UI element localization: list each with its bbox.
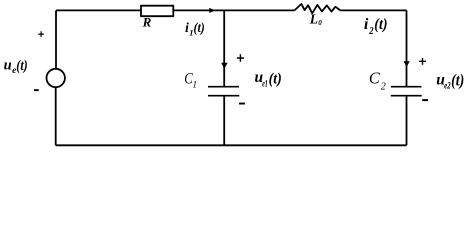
svg-text:(t): (t) bbox=[269, 70, 282, 87]
svg-text:2: 2 bbox=[368, 26, 373, 37]
svg-text:(t): (t) bbox=[374, 16, 387, 33]
svg-text:R: R bbox=[142, 15, 152, 30]
svg-text:(t): (t) bbox=[451, 71, 464, 90]
svg-text:1: 1 bbox=[193, 80, 198, 90]
svg-text:(t): (t) bbox=[16, 58, 27, 74]
svg-text:0: 0 bbox=[318, 19, 322, 27]
svg-text:u: u bbox=[4, 57, 12, 73]
svg-text:i: i bbox=[364, 16, 369, 33]
svg-text:e2: e2 bbox=[444, 82, 451, 92]
svg-text:L: L bbox=[309, 12, 318, 27]
svg-text:e1: e1 bbox=[262, 79, 268, 89]
svg-text:C: C bbox=[369, 69, 381, 88]
svg-text:(t): (t) bbox=[194, 21, 205, 36]
svg-text:2: 2 bbox=[381, 82, 386, 93]
